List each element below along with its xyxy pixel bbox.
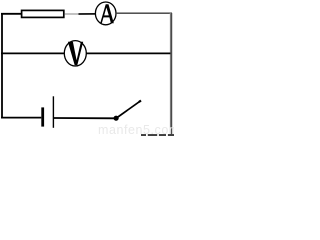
ammeter U1 circle: [95, 2, 116, 25]
wire ammeter to top-right corner: [116, 12, 172, 14]
watermark dark letter-tops clipped at bottom edge: [0, 0, 174, 136]
wire middle left (to voltmeter): [1, 52, 64, 54]
wire left vertical: [1, 13, 3, 118]
switch S1 pivot node: [114, 116, 119, 121]
switch S1 blade (open): [117, 101, 141, 118]
battery B1 negative plate (short thick): [41, 107, 44, 126]
ammeter letter A: [100, 4, 114, 23]
voltmeter letter V: [68, 42, 83, 65]
wire top-left horizontal: [1, 13, 22, 15]
wire right vertical: [170, 13, 172, 136]
wire middle right (voltmeter to right side): [86, 52, 170, 54]
battery B1 positive plate (long thin): [53, 96, 54, 128]
voltmeter U2 circle: [64, 41, 86, 66]
watermark light: manfen5.com: [98, 123, 180, 137]
wire resistor to ammeter (black part): [79, 13, 96, 15]
switch S1 blade tip: [139, 101, 141, 103]
wire battery to switch: [54, 117, 114, 119]
wire bottom left (to battery): [1, 117, 41, 119]
wire right vertical (soft halo): [170, 13, 173, 136]
wire resistor to ammeter (gray part): [65, 13, 79, 15]
resistor R: [22, 10, 64, 17]
